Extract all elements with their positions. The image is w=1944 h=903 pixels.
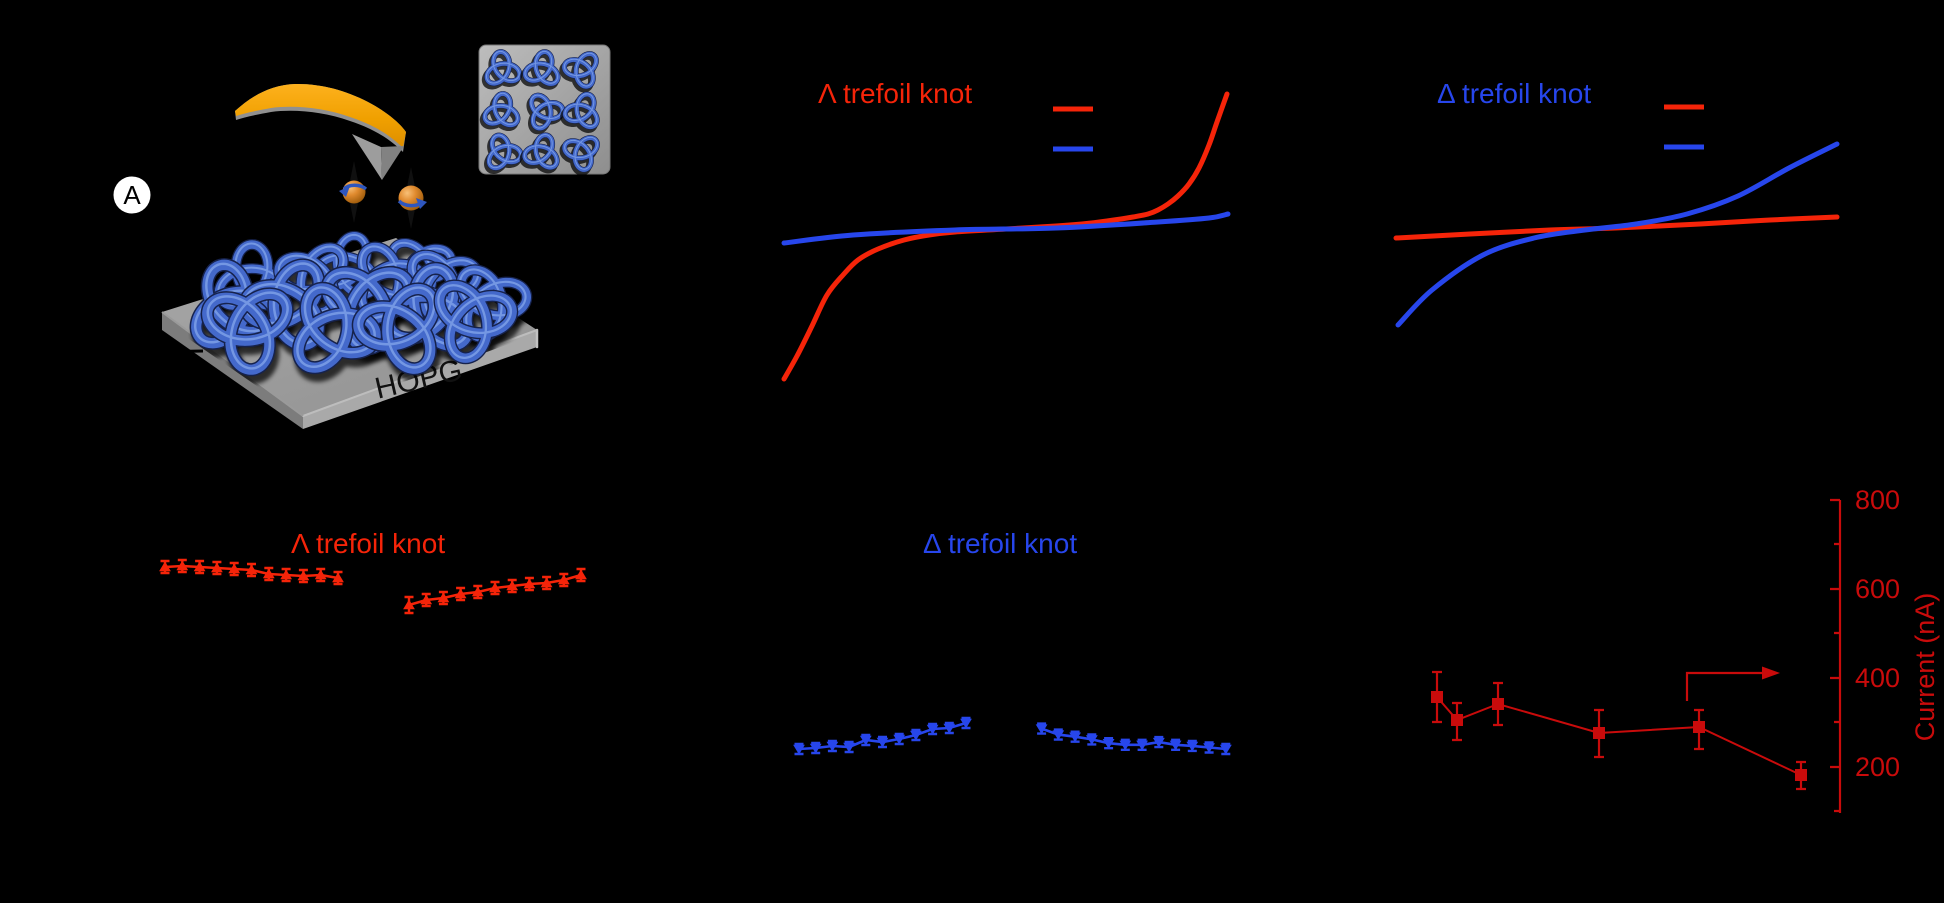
AFM cantilever [235, 84, 406, 180]
HOPG slab [162, 238, 537, 429]
tip pyramid [352, 134, 382, 180]
svg-text:Δ trefoil knot: Δ trefoil knot [1437, 78, 1591, 109]
svg-text:Δ trefoil knot: Δ trefoil knot [923, 528, 1077, 559]
label A circle [114, 177, 151, 214]
svg-text:200: 200 [1855, 752, 1900, 782]
svg-text:Λ trefoil knot: Λ trefoil knot [291, 528, 445, 559]
svg-text:600: 600 [1855, 574, 1900, 604]
svg-text:Current (nA): Current (nA) [1910, 593, 1940, 742]
svg-text:A: A [123, 180, 141, 210]
svg-text:Λ trefoil knot: Λ trefoil knot [818, 78, 972, 109]
wire stub [150, 351, 203, 352]
molecules: spheres with spin arrows [339, 161, 427, 229]
inset: knot array [479, 44, 610, 175]
svg-text:800: 800 [1855, 485, 1900, 515]
svg-text:400: 400 [1855, 663, 1900, 693]
knot pile [181, 224, 533, 376]
